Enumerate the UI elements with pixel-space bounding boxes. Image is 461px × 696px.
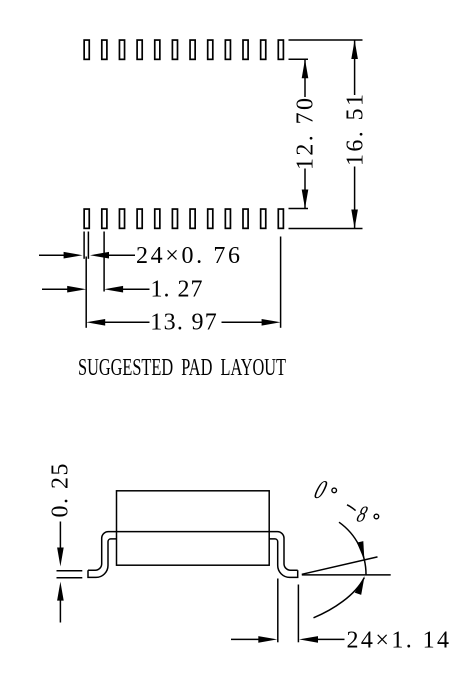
arrow right row2 left	[67, 286, 86, 293]
svg-text:24×0. 76: 24×0. 76	[136, 243, 240, 269]
24x0.76 dimension row	[39, 254, 64, 256]
parting line + lead top surfaces	[88, 532, 298, 571]
svg-text:SUGGESTED PAD LAYOUT: SUGGESTED PAD LAYOUT	[78, 354, 286, 381]
pad 1 (top row)	[84, 40, 89, 59]
angle arc lower	[314, 578, 365, 618]
pad 17 (bottom row)	[155, 209, 160, 228]
arrow up at 12.70 top	[302, 59, 309, 78]
pad 10 (top row)	[243, 40, 248, 59]
svg-text:0. 25: 0. 25	[48, 464, 74, 518]
24x1.14 extension left	[277, 579, 279, 643]
pad 22 (bottom row)	[243, 209, 248, 228]
arrow right row3 right	[262, 319, 281, 326]
seating plane line	[302, 574, 391, 576]
pad 2 (top row)	[102, 40, 107, 59]
extension line top-top	[289, 39, 363, 41]
24x1.14 extension right	[297, 585, 299, 643]
0.25 tick top	[57, 570, 83, 572]
dimension 16.51 line	[354, 40, 356, 95]
arrow on angle arc upper	[357, 541, 365, 560]
pad 24 (bottom row)	[278, 209, 283, 228]
arrow down at 0.25 top	[57, 548, 64, 567]
angle arc upper	[339, 522, 366, 575]
extension line top-bottom	[289, 58, 309, 60]
arrow left row1 right	[90, 252, 109, 259]
pad 5 (top row)	[155, 40, 160, 59]
pad 8 (top row)	[208, 40, 213, 59]
0 degree circle	[332, 488, 337, 493]
13.97 extension line right	[280, 237, 282, 328]
1.27 extension line right	[103, 232, 105, 292]
pad 16 (bottom row)	[137, 209, 142, 228]
24x0.76 extension pair	[83, 232, 85, 259]
arrow on angle arc lower	[355, 576, 365, 595]
arrow left row2 right	[104, 286, 123, 293]
pad 20 (bottom row)	[208, 209, 213, 228]
pad 21 (bottom row)	[225, 209, 230, 228]
pad 13 (bottom row)	[84, 209, 89, 228]
pad 18 (bottom row)	[172, 209, 177, 228]
13.97 extension line left	[85, 257, 87, 328]
dimension 12.70 line	[304, 59, 306, 97]
arrow right row1 left	[64, 252, 83, 259]
pad 14 (bottom row)	[102, 209, 107, 228]
right lead inner surface	[269, 539, 298, 578]
0.25 tick bottom	[57, 577, 83, 579]
left lead inner surface	[88, 539, 117, 578]
8 degree line	[302, 557, 378, 574]
pad 9 (top row)	[225, 40, 230, 59]
8 deg leader dash	[347, 505, 356, 511]
24x1.14 dimension row	[231, 638, 259, 640]
0.25 dimension vertical	[59, 522, 61, 549]
svg-text:24×1. 14: 24×1. 14	[347, 628, 450, 654]
8 degree circle	[374, 514, 379, 519]
package body	[117, 491, 270, 565]
arrow down at 12.70 bottom	[302, 190, 309, 209]
pad 7 (top row)	[190, 40, 195, 59]
svg-text:13. 97: 13. 97	[150, 310, 217, 336]
extension line bottom-bottom	[289, 228, 363, 230]
1.27 dimension row	[42, 288, 68, 290]
pad 15 (bottom row)	[119, 209, 124, 228]
pad 4 (top row)	[137, 40, 142, 59]
arrow left row3 left	[86, 319, 105, 326]
13.97 dimension row	[105, 321, 150, 323]
arrow up at 0.25 bottom	[57, 582, 64, 601]
pad 23 (bottom row)	[261, 209, 266, 228]
arrow left at 24x1.14 right	[299, 636, 318, 643]
extension line bottom-top	[289, 208, 309, 210]
pad 12 (top row)	[278, 40, 283, 59]
arrow down at 16.51 bottom	[351, 210, 358, 229]
pad 6 (top row)	[172, 40, 177, 59]
arrow up at 16.51 top	[351, 40, 358, 59]
arrow right at 24x1.14 left	[258, 636, 277, 643]
pad 19 (bottom row)	[190, 209, 195, 228]
pad 3 (top row)	[119, 40, 124, 59]
pad 11 (top row)	[261, 40, 266, 59]
